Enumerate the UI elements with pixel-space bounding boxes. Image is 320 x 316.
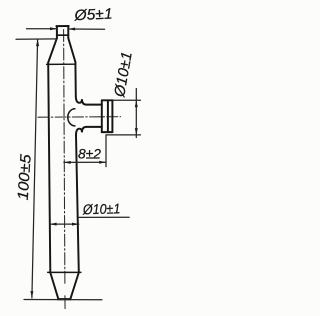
extension line top (100 dim): [16, 38, 57, 40]
dimension line 8±2: [64, 161, 106, 163]
taper left edge: [50, 273, 58, 300]
taper right edge: [70, 273, 79, 300]
extension line bottom (100 dim): [24, 299, 102, 301]
arrowhead Ø5 right pointing left: [68, 28, 75, 31]
centerline main tube axis: [64, 30, 65, 285]
bead flange end face: [111, 100, 113, 132]
neck rim: [56, 25, 68, 27]
arrowhead body Ø10 right pointing right: [72, 223, 79, 226]
dimension arrow line Ø10 body: [50, 223, 79, 225]
tube right wall lower: [76, 135, 79, 272]
arm bottom wall with bottom lip: [76, 127, 102, 135]
extension line arm Ø10 top: [113, 99, 141, 101]
arrowhead Ø5 left pointing right: [50, 27, 57, 30]
tube bottom tip: [58, 298, 70, 300]
svg-text:Ø5±1: Ø5±1: [73, 6, 113, 25]
svg-text:Ø10±1: Ø10±1: [82, 200, 121, 217]
side arm inner hole arc: [68, 109, 75, 126]
dimension line Ø5 left segment: [27, 28, 57, 30]
arrowhead body Ø10 left pointing left: [50, 223, 57, 226]
neck inner line: [57, 34, 68, 36]
arrowhead 100 bottom pointing down: [30, 291, 33, 298]
neck flare right: [68, 38, 75, 62]
taper shoulder line: [48, 271, 81, 273]
neck flare left: [48, 38, 57, 62]
arrowhead 8±2 right pointing right: [99, 161, 106, 164]
tube right wall upper with top lip and arm top wall: [75, 62, 101, 105]
svg-text:100±5: 100±5: [15, 153, 35, 201]
extension line arm Ø10 bottom: [106, 134, 141, 136]
arrowhead arm Ø10 top pointing up: [135, 100, 138, 107]
extension line 8±2 right: [105, 135, 107, 167]
arrowhead 100 top pointing up: [36, 39, 39, 46]
centerline bottom overshoot: [64, 296, 66, 309]
dimension line 100±5: [32, 39, 38, 298]
bead flange middle line: [107, 100, 109, 132]
neck right wall: [67, 26, 69, 38]
tube left wall: [48, 63, 50, 273]
centerline side arm axis: [38, 116, 121, 119]
arrowhead arm Ø10 bottom pointing down: [135, 128, 138, 135]
leader shelf Ø10 body: [79, 216, 129, 218]
arrowhead 8±2 left pointing left: [64, 161, 71, 164]
shoulder line: [47, 63, 76, 65]
bead flange left edge: [101, 100, 103, 132]
neck left wall: [56, 26, 58, 38]
bead flange top edge: [102, 99, 113, 101]
svg-text:8±2: 8±2: [78, 145, 101, 161]
bead flange bottom edge: [102, 131, 113, 133]
dimension line arm Ø10: [135, 89, 137, 138]
dimension line Ø5 right segment: [68, 28, 104, 30]
